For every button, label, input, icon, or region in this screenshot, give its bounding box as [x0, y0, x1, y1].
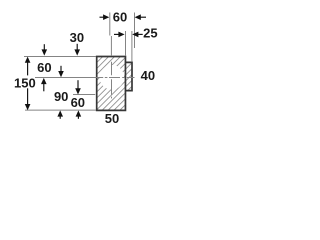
dim 25: left arrow — [114, 32, 125, 38]
extension line 60-dim top left — [109, 13, 111, 36]
extension line 25-dim right — [131, 31, 133, 62]
hatch knockout circle (pipe opening) — [100, 65, 125, 90]
hatch fill of profile section — [33, 48, 200, 115]
centerline vertical upper extension — [110, 36, 112, 56]
dim 90: top down arrow — [58, 66, 64, 77]
dim 60 left: top down arrow — [42, 44, 48, 55]
dim 60 bottom: bottom up arrow — [76, 110, 82, 118]
svg-text:60: 60 — [71, 95, 85, 110]
dim 60 left: bottom up arrow — [41, 78, 47, 91]
svg-text:50: 50 — [105, 111, 119, 126]
extension line step level (left) — [73, 94, 95, 96]
svg-text:40: 40 — [141, 68, 155, 83]
svg-text:90: 90 — [54, 89, 68, 104]
dim 60 top: right arrow — [135, 14, 146, 20]
dim 25: right arrow — [132, 32, 143, 38]
extension line bottom level (left) — [25, 109, 96, 111]
dim 90: bottom up arrow — [57, 110, 63, 118]
profile outline: right protrusion box — [125, 62, 132, 90]
dim 150: top up arrow — [25, 57, 31, 76]
dim 150: bottom down arrow — [25, 88, 31, 110]
dim 60 top: left arrow — [100, 14, 110, 20]
svg-text:60: 60 — [37, 60, 51, 75]
svg-text:25: 25 — [143, 26, 157, 41]
extension line top-edge level (left) — [24, 56, 96, 58]
svg-text:30: 30 — [70, 30, 84, 45]
centerline vertical (dash-dot segments) — [111, 62, 113, 99]
profile outline: main body — [97, 57, 126, 111]
svg-text:60: 60 — [113, 10, 127, 25]
extension line 60-dim top right — [134, 13, 136, 49]
svg-text:150: 150 — [14, 76, 36, 91]
dim 60 bottom: top down arrow — [75, 80, 81, 94]
dim 30: down arrow onto top-edge line — [74, 44, 80, 56]
centerline horizontal (dash-dot segments) — [35, 77, 135, 79]
extension line 25-dim left — [125, 31, 127, 56]
